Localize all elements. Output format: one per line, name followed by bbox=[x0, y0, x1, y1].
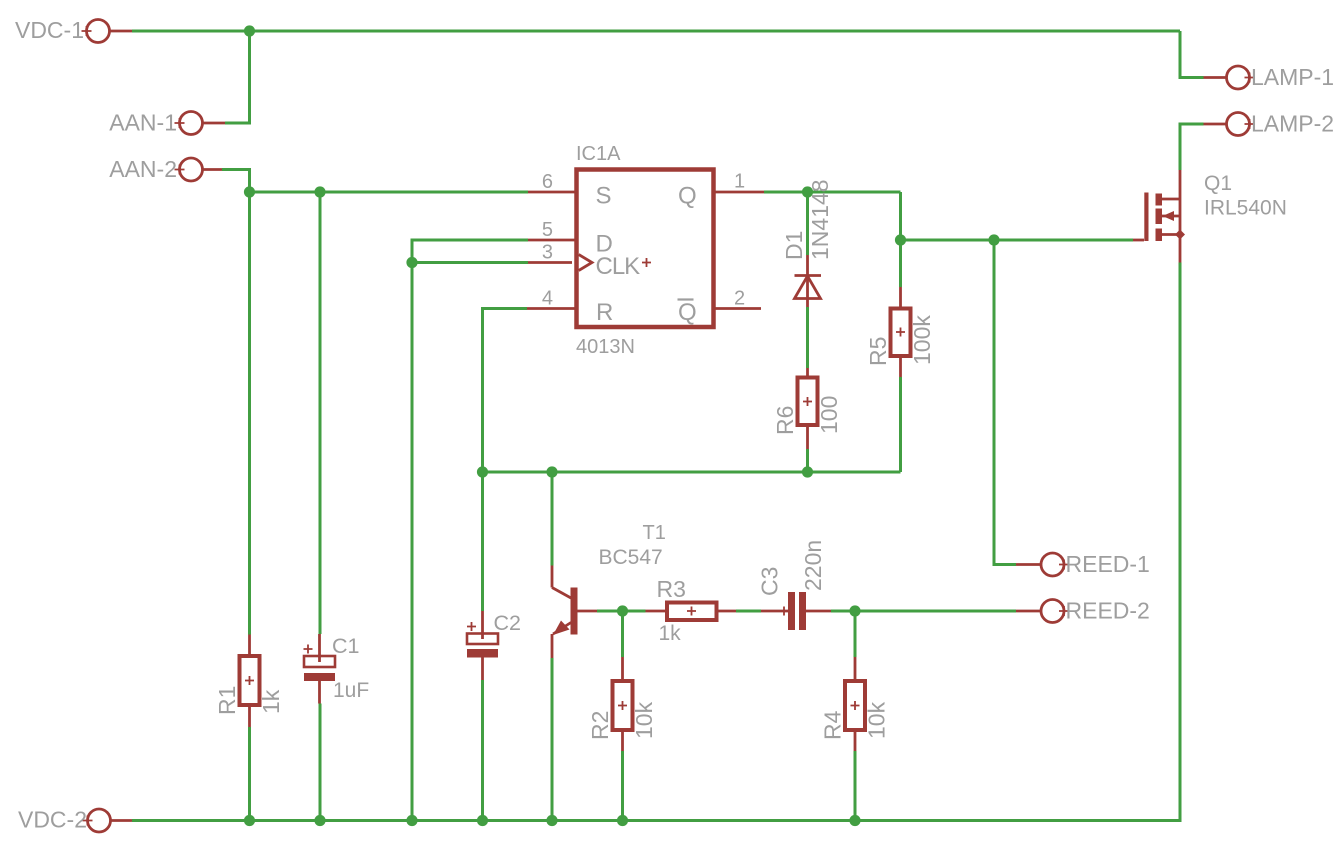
wire C2 bottom bbox=[481, 680, 484, 821]
svg-text:C3: C3 bbox=[757, 567, 783, 596]
svg-text:R4: R4 bbox=[820, 710, 846, 740]
pad AAN-1 bbox=[109, 110, 225, 136]
wire IC pin CLK bbox=[412, 261, 528, 264]
capacitor C2 bbox=[467, 611, 521, 680]
capacitor C3 220n bbox=[757, 540, 832, 630]
wire R2 top bbox=[621, 611, 624, 657]
wire R1 bottom bbox=[248, 727, 251, 821]
wire AAN-2 net to IC pin S bbox=[250, 191, 529, 194]
wire IC pin D bend bbox=[412, 240, 528, 263]
wire R3 to C3 bbox=[736, 610, 761, 613]
diode D1 1N4148 bbox=[781, 179, 833, 307]
junction gate / REED-1 bbox=[988, 234, 999, 245]
junction bottom C2 bbox=[477, 815, 488, 826]
resistor R2 10k bbox=[587, 657, 657, 751]
junction CLK / D net bbox=[406, 257, 417, 268]
svg-text:VDC-1: VDC-1 bbox=[15, 17, 84, 43]
wire C1 bottom bbox=[319, 704, 322, 821]
junction bottom R2 bbox=[617, 815, 628, 826]
svg-text:C1: C1 bbox=[332, 634, 359, 658]
wire CLK net down bbox=[411, 263, 414, 821]
junction gate / R5 bbox=[895, 234, 906, 245]
svg-text:S: S bbox=[596, 183, 611, 210]
svg-text:1uF: 1uF bbox=[333, 679, 369, 702]
svg-text:R: R bbox=[596, 299, 613, 326]
wire top rail to LAMP-1 bbox=[1180, 31, 1204, 78]
pad VDC-2 bbox=[18, 807, 132, 833]
wire Q output to right bbox=[764, 191, 901, 194]
svg-text:REED-1: REED-1 bbox=[1066, 551, 1150, 577]
svg-text:100k: 100k bbox=[909, 315, 935, 365]
svg-text:IRL540N: IRL540N bbox=[1204, 197, 1287, 220]
wire gate column bbox=[899, 192, 902, 240]
svg-text:C2: C2 bbox=[494, 611, 521, 635]
junction AAN-2 node A bbox=[244, 186, 255, 197]
svg-text:1: 1 bbox=[734, 171, 745, 193]
svg-text:1k: 1k bbox=[258, 689, 284, 714]
wire R5 top bbox=[899, 240, 902, 287]
svg-text:IC1A: IC1A bbox=[576, 143, 621, 165]
pin 1 Q stub bbox=[678, 171, 764, 210]
junction Q output / D1 bbox=[802, 186, 813, 197]
wire AAN-2 bend bbox=[222, 170, 250, 193]
svg-text:3: 3 bbox=[542, 242, 553, 264]
svg-text:AAN-2: AAN-2 bbox=[109, 156, 177, 182]
pin 2 Qbar stub bbox=[678, 288, 762, 327]
svg-text:BC547: BC547 bbox=[599, 546, 663, 569]
resistor R5 100k bbox=[865, 287, 935, 377]
pad REED-1 bbox=[1016, 551, 1150, 577]
junction C3 / R4 bbox=[849, 605, 860, 616]
transistor Q1 IRL540N mosfet bbox=[1133, 170, 1287, 263]
transistor T1 BC547 bbox=[552, 522, 666, 658]
junction bottom C1 bbox=[314, 815, 325, 826]
pin 5 D stub bbox=[528, 219, 613, 258]
wire IC pin R bend bbox=[483, 309, 528, 473]
wire R1 column top bbox=[248, 192, 251, 635]
wire T1 emitter bottom bbox=[551, 658, 554, 821]
svg-text:R1: R1 bbox=[214, 686, 240, 715]
resistor R4 10k bbox=[820, 657, 890, 751]
op-amp U1 : IC1A 4013N flip-flop box bbox=[576, 143, 714, 358]
svg-text:4013N: 4013N bbox=[576, 336, 635, 358]
pad AAN-2 bbox=[109, 156, 222, 182]
wire T1 base node bbox=[597, 610, 646, 613]
wire AAN-1 branch bbox=[225, 31, 250, 123]
svg-text:6: 6 bbox=[542, 171, 553, 193]
svg-text:Q1: Q1 bbox=[1204, 172, 1232, 195]
junction bottom CLK net bbox=[406, 815, 417, 826]
pad VDC-1 bbox=[15, 17, 132, 43]
wire D1 top bbox=[806, 192, 809, 255]
svg-text:100: 100 bbox=[816, 396, 842, 434]
svg-text:D1: D1 bbox=[781, 231, 807, 260]
resistor R6 100 bbox=[772, 368, 842, 449]
pad LAMP-1 bbox=[1204, 64, 1335, 90]
junction mid rail / R6 bbox=[802, 466, 813, 477]
svg-text:1N4148: 1N4148 bbox=[807, 179, 833, 260]
pad REED-2 bbox=[1016, 598, 1150, 624]
svg-text:R3: R3 bbox=[657, 576, 686, 602]
svg-text:220n: 220n bbox=[800, 540, 826, 591]
wire D1 to R6 bbox=[806, 307, 809, 368]
junction bottom T1 bbox=[546, 815, 557, 826]
svg-text:REED-2: REED-2 bbox=[1066, 598, 1150, 624]
wire bottom rail bbox=[132, 263, 1180, 821]
wire LAMP-2 to Q1 drain bbox=[1180, 124, 1204, 170]
wire mid rail bbox=[483, 471, 901, 474]
svg-text:1k: 1k bbox=[659, 622, 682, 645]
svg-text:CLK: CLK bbox=[596, 253, 641, 280]
junction base / R2 bbox=[617, 605, 628, 616]
svg-text:R6: R6 bbox=[772, 406, 798, 435]
pin 6 S stub bbox=[528, 171, 611, 210]
junction top rail bbox=[244, 25, 255, 36]
svg-text:T1: T1 bbox=[643, 522, 666, 544]
wire R4 top bbox=[854, 611, 857, 657]
wire C3 to REED-2 bbox=[831, 610, 1016, 613]
wire R6 to mid rail bbox=[806, 449, 809, 472]
svg-text:R5: R5 bbox=[865, 337, 891, 366]
pin 3 CLK stub bbox=[528, 242, 651, 281]
svg-text:10k: 10k bbox=[631, 701, 657, 739]
wire R4 bottom bbox=[854, 751, 857, 821]
svg-text:Q: Q bbox=[678, 183, 696, 210]
wire REED-1 column bbox=[994, 240, 1016, 565]
svg-text:R2: R2 bbox=[587, 711, 613, 740]
svg-text:Q: Q bbox=[678, 299, 696, 326]
capacitor C1 1uF bbox=[304, 634, 370, 704]
resistor R1 1k bbox=[214, 635, 284, 728]
pin 4 R stub bbox=[527, 288, 613, 327]
junction AAN-2 node B bbox=[314, 186, 325, 197]
resistor R3 1k bbox=[646, 576, 737, 645]
wire R2 bottom bbox=[621, 751, 624, 821]
svg-text:10k: 10k bbox=[864, 701, 890, 739]
svg-text:VDC-2: VDC-2 bbox=[18, 807, 87, 833]
wire VDC-1 top rail bbox=[132, 30, 1180, 33]
svg-text:2: 2 bbox=[734, 288, 745, 310]
junction mid rail / T1 bbox=[546, 466, 557, 477]
svg-text:LAMP-1: LAMP-1 bbox=[1251, 64, 1334, 90]
junction bottom R4 bbox=[849, 815, 860, 826]
junction mid rail / C2 bbox=[477, 466, 488, 477]
wire C1 column top bbox=[319, 192, 322, 634]
junction bottom R1 bbox=[244, 815, 255, 826]
pad LAMP-2 bbox=[1204, 111, 1335, 137]
wire C2 top bbox=[481, 472, 484, 611]
svg-text:AAN-1: AAN-1 bbox=[109, 110, 177, 136]
wire gate line bbox=[901, 239, 1134, 242]
svg-text:4: 4 bbox=[542, 288, 553, 310]
wire T1 collector top bbox=[551, 472, 554, 566]
wire R5 bottom bbox=[899, 377, 902, 472]
svg-text:LAMP-2: LAMP-2 bbox=[1251, 111, 1334, 137]
svg-text:5: 5 bbox=[542, 219, 553, 241]
